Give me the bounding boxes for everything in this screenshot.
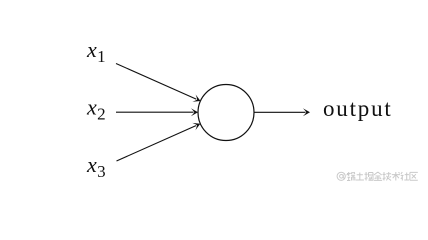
arrowhead x2	[191, 108, 198, 116]
watermark char ji	[383, 172, 392, 181]
watermark char jue	[365, 172, 374, 181]
wire neuron to output	[254, 111, 306, 113]
watermark @juejin community	[337, 172, 418, 181]
svg-text:x2: x2	[86, 95, 106, 124]
svg-text:x3: x3	[86, 152, 106, 181]
wire x3 to neuron	[117, 126, 197, 161]
svg-text:x1: x1	[86, 37, 106, 66]
watermark char qu	[410, 172, 418, 180]
watermark char she	[401, 172, 409, 181]
watermark char jin	[374, 172, 382, 180]
arrowhead x1	[192, 94, 202, 104]
svg-text:output: output	[323, 96, 393, 121]
watermark char xi	[347, 172, 356, 181]
arrowhead x3	[192, 120, 202, 130]
neuron circle	[198, 85, 254, 141]
watermark at-sign	[337, 172, 345, 180]
watermark char tu	[356, 173, 364, 181]
arrowhead output	[303, 108, 310, 116]
wire x1 to neuron	[116, 64, 196, 100]
wire x2 to neuron	[116, 111, 194, 113]
watermark char shu	[392, 172, 400, 181]
